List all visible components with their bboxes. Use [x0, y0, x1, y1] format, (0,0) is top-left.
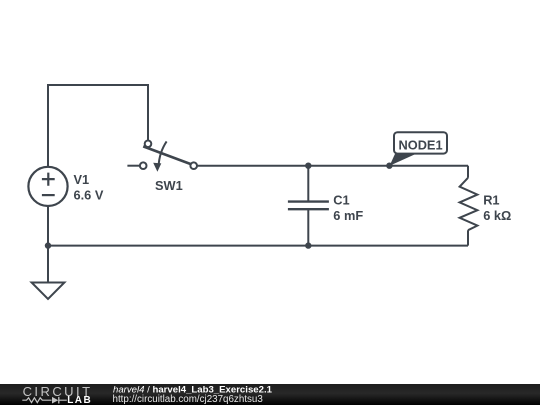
switch SW1 left terminal [140, 162, 147, 169]
footer logo resistor-diode glyph [22, 398, 67, 403]
node flag NODE1 tail [390, 153, 417, 166]
wire right riser top [467, 166, 469, 178]
svg-text:6.6 V: 6.6 V [74, 188, 104, 203]
wire top rail [197, 165, 468, 167]
wire V1 top to switch pivot [48, 85, 148, 167]
svg-text:V1: V1 [74, 172, 90, 187]
junction top capacitor [305, 163, 311, 169]
svg-text:SW1: SW1 [155, 178, 183, 193]
switch SW1 right terminal [190, 162, 197, 169]
switch SW1 motion arc arrow [153, 141, 166, 171]
junction bottom ground [45, 242, 51, 248]
junction bottom capacitor [305, 242, 311, 248]
wire ground lead [47, 246, 49, 283]
capacitor C1 [288, 166, 329, 246]
svg-text:C1: C1 [333, 193, 349, 208]
node flag NODE1 box [394, 132, 447, 153]
resistor R1 [460, 178, 478, 230]
wire V1 bottom lead [47, 206, 49, 245]
wire right riser bottom [467, 230, 469, 245]
switch SW1 blade [143, 146, 190, 164]
svg-text:http://circuitlab.com/cj237q6z: http://circuitlab.com/cj237q6zhtsu3 [113, 394, 264, 405]
wire bottom rail [48, 245, 468, 247]
svg-text:NODE1: NODE1 [399, 138, 443, 153]
voltage source V1 [28, 167, 67, 206]
junction NODE1 [386, 163, 392, 169]
svg-text:6 mF: 6 mF [333, 208, 363, 223]
wire switch left stub [127, 165, 139, 167]
ground [32, 283, 65, 300]
switch SW1 pivot terminal [145, 141, 152, 148]
svg-text:LAB: LAB [67, 395, 92, 405]
footer bar [0, 384, 540, 405]
svg-text:6 kΩ: 6 kΩ [483, 208, 511, 223]
svg-text:R1: R1 [483, 193, 499, 208]
